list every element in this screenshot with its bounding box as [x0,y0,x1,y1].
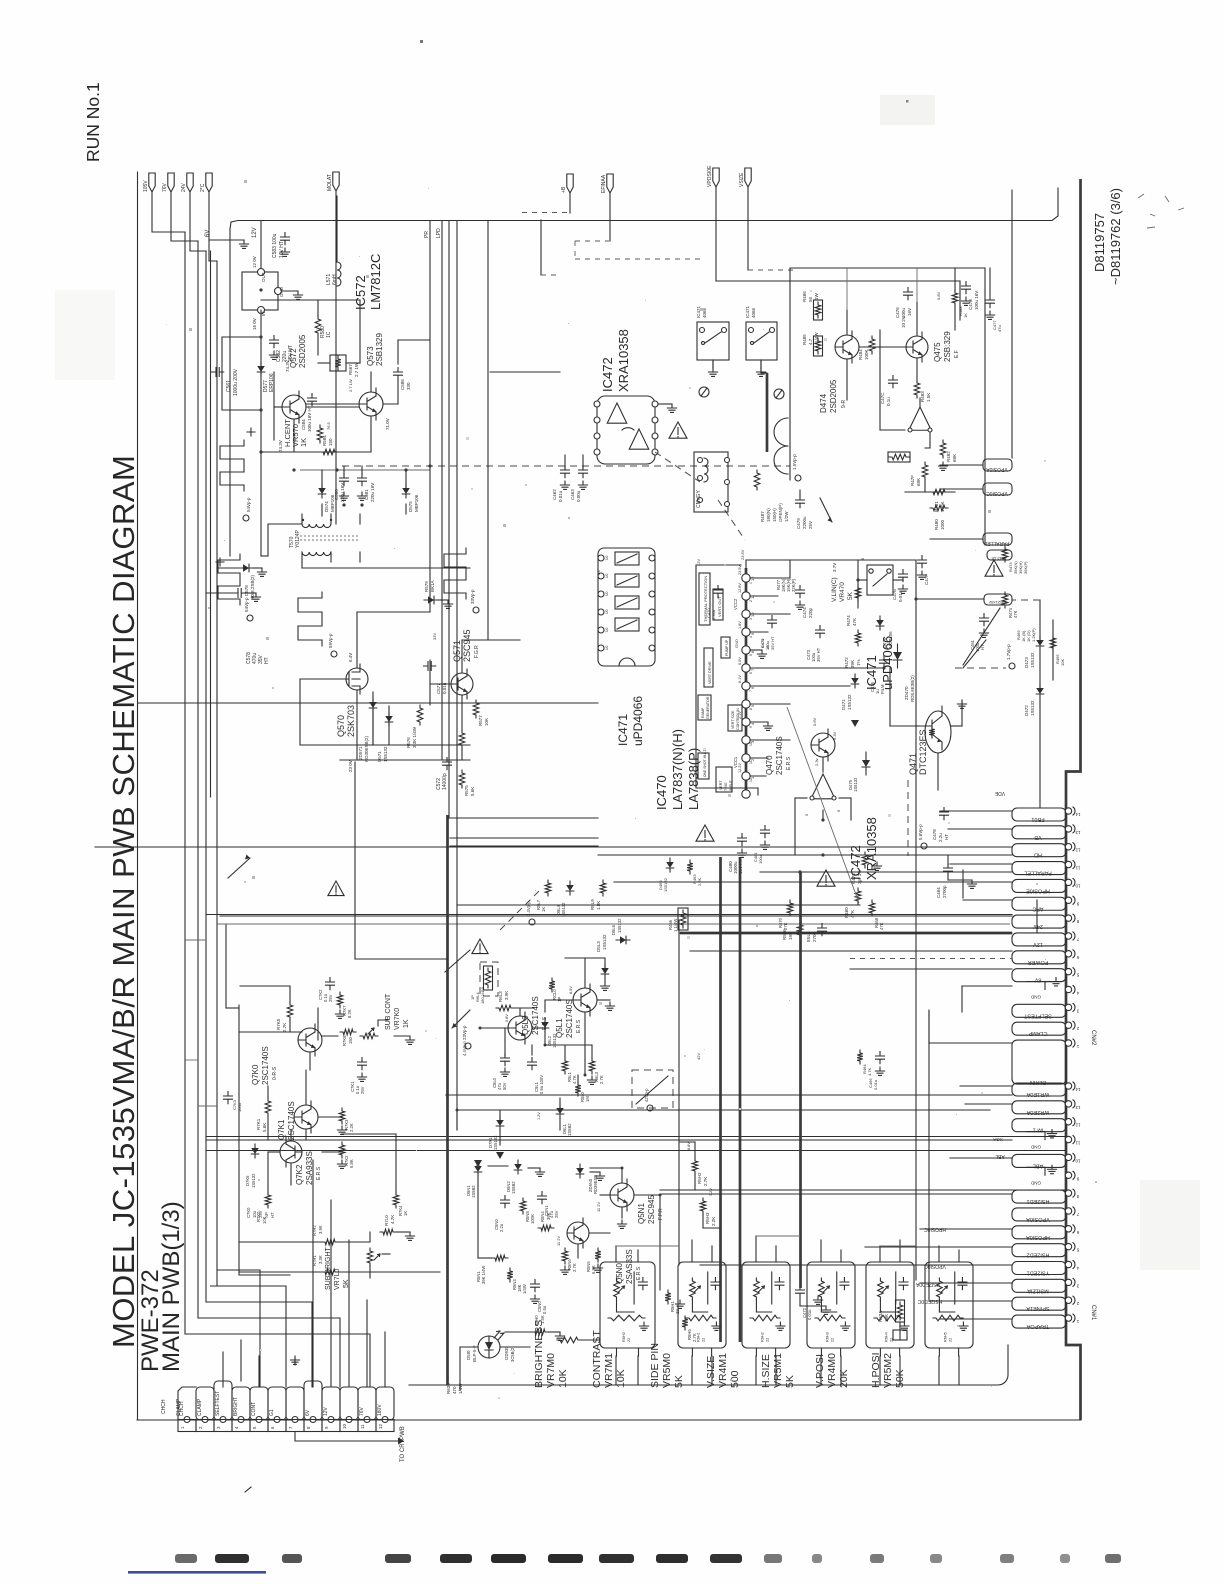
svg-text:R7L0: R7L0 [384,1215,389,1226]
label Q7K0 2SC1740S [251,1046,278,1085]
wire into connector y951 [690,950,1012,952]
svg-text:R5H2: R5H2 [697,1172,702,1184]
wire heavy x720 [719,857,722,1342]
connector tab pin 12 180V [376,1387,394,1420]
wire into connector y811 [940,810,1012,812]
wire pin +B drop [569,193,571,213]
diode ZD571 [358,698,377,762]
svg-text:D473: D473 [1024,657,1029,668]
wire into connector y864 [950,863,1012,865]
svg-text:10K: 10K [1060,659,1065,666]
connector CN1 box ABL [1012,1154,1066,1168]
svg-text:4: 4 [749,636,753,638]
connector CN1 pin circle 7 [1065,1207,1079,1217]
resistor R486 boxed [802,291,823,320]
connector CN2 box POWER [1012,951,1066,965]
svg-text:35V HT: 35V HT [816,647,821,662]
label Q475 2SB1329 [933,331,960,362]
wire heavy right vertical [1066,179,1081,1420]
label 3.7V [832,563,837,572]
connector CN1 pin circle 14 [1065,1082,1080,1092]
svg-text:MSI1ZIA: MSI1ZIA [1027,1287,1049,1293]
svg-text:14: 14 [1075,1087,1081,1092]
resistor R575 [459,770,475,796]
wire into connector y1301 [930,1300,1012,1302]
boxed resistor R47G [888,452,910,462]
svg-text:1S5132: 1S5132 [1030,652,1035,668]
svg-text:C478: C478 [932,829,937,840]
svg-text:XGA: XGA [993,1137,1003,1142]
resistor R5N8 [520,1198,535,1224]
label Q7K2 2SA933S [295,1151,322,1185]
resistor R5N5 [586,1248,603,1274]
label 0.8V marks [505,986,573,1120]
resistor R47F [910,462,928,486]
svg-text:V.LIN(C): V.LIN(C) [831,577,838,602]
svg-text:2SC1740S: 2SC1740S [261,1046,270,1085]
svg-text:TRAPOA: TRAPOA [1026,1323,1049,1329]
wire y958 dash [850,958,1012,960]
svg-text:R480: R480 [934,519,939,530]
wire pin 2*C drop [209,192,217,261]
diode D470 [893,644,915,702]
svg-text:BRIGHTNESS: BRIGHTNESS [533,1320,545,1388]
deflection coil arcs [774,418,801,481]
stray dot mid [906,100,909,103]
svg-text:22: 22 [627,1338,631,1342]
svg-text:10: 10 [749,742,753,746]
svg-text:D574: D574 [324,501,329,512]
svg-text:5.6K: 5.6K [470,787,475,796]
svg-text:0.00u: 0.00u [576,490,581,502]
svg-text:R487: R487 [760,511,765,522]
svg-text:16 0V: 16 0V [252,318,257,330]
diode D579 [424,580,453,608]
label V.LIN(C) VR470 5K [831,577,854,602]
wire rails y838 846 [450,838,598,846]
resistor R460 [844,888,861,918]
boxed resistor R6L4 [470,962,498,1004]
svg-text:24V: 24V [181,182,187,192]
svg-text:TRIG: TRIG [724,782,728,791]
block CNVGY [694,452,730,512]
wire q474 net [847,302,917,400]
svg-text:39K 1/4W: 39K 1/4W [481,1266,486,1284]
connector pin VPOSI0E [707,165,719,187]
svg-text:1S5132: 1S5132 [1030,700,1035,716]
svg-text:5K: 5K [784,1375,796,1388]
svg-text:R6H1: R6H1 [697,1332,701,1342]
svg-text:R7K1: R7K1 [256,1118,261,1130]
svg-text:R579: R579 [424,581,429,592]
svg-text:HPOSI0A: HPOSI0A [1026,1234,1050,1240]
svg-text:100u 16V HT: 100u 16V HT [307,405,312,432]
wire bus staircase 1 [185,1334,370,1387]
connector CN1 box WR1E0A [1012,1083,1066,1097]
svg-text:1S5132: 1S5132 [552,1033,557,1048]
connector CN1 box SPINE1A [1012,1297,1066,1311]
wire rail y855 [598,854,1012,856]
block RAMP GENERATOR [698,695,711,720]
connector CN2 box 24V [1012,915,1066,929]
svg-text:VR470: VR470 [839,582,846,602]
svg-text:1 1/4W: 1 1/4W [673,919,678,932]
svg-text:0.33u: 0.33u [711,610,716,620]
svg-text:VR5M1: VR5M1 [772,1353,784,1388]
connector CN1 pin circle 8 [1065,1189,1079,1199]
svg-text:6.8K: 6.8K [349,1159,354,1168]
doc number ~D8119762 (3/6) [1108,188,1123,285]
capacitor C476 [895,288,913,319]
svg-text:6.8K: 6.8K [591,1265,596,1274]
label Q570 2SK703 [336,705,356,737]
svg-text:1C: 1C [326,331,332,338]
wire into connector y847 [95,846,1012,848]
svg-text:D5I0: D5I0 [466,1350,471,1360]
wire into connector y1104 [965,1103,1012,1105]
diode D473 [1024,636,1044,668]
label G1 [269,1409,275,1416]
wire into connector y900 [963,899,1012,901]
transistor Q474 [835,331,859,363]
svg-text:9: 9 [749,726,753,728]
svg-text:D8119757: D8119757 [1092,213,1107,272]
svg-text:D5L6: D5L6 [611,924,616,935]
svg-text:IC470: IC470 [654,775,669,810]
svg-text:VPOSI0A: VPOSI0A [986,466,1008,472]
svg-text:D474: D474 [819,393,828,413]
wire opamp out [880,330,920,430]
wire right-top stubs [847,268,990,330]
wire r580 link [261,300,330,363]
wire pin VSIZE drop [748,187,795,270]
warning triangle mid-right [985,560,1003,576]
diode D578 row [217,564,267,600]
svg-text:PR: PR [424,231,430,238]
connector CN2 box FB01 [1012,808,1066,822]
svg-text:CNVGY: CNVGY [696,490,702,508]
wire pin col top [746,560,790,568]
resistor R471 [851,852,882,884]
svg-text:2700p: 2700p [942,885,947,898]
svg-text:Q7K2: Q7K2 [295,1164,304,1185]
svg-text:MBP106: MBP106 [414,494,419,512]
tab small A012 [987,550,1012,561]
subtitle PWE-372 [137,1269,164,1372]
svg-text:13: 13 [1075,830,1081,835]
svg-text:1%: 1% [856,659,861,666]
svg-text:180(N): 180(N) [766,508,771,522]
capacitor C578 row [206,589,270,665]
label CHCH CLAMP outer [161,1398,182,1416]
resistor R7K0 [256,1192,271,1224]
svg-text:CHCH: CHCH [161,1399,167,1414]
potentiometer box 4 [807,1262,855,1356]
svg-text:HSI2ED0C: HSI2ED0C [917,1298,942,1304]
svg-text:2SC1740S: 2SC1740S [775,736,784,775]
svg-text:2.7 1W: 2.7 1W [354,362,359,377]
wire top rail [230,188,1058,229]
label V.SIZE VR4M1 [705,1353,741,1388]
svg-text:E.R.S: E.R.S [636,1266,642,1280]
svg-text:R5H3: R5H3 [705,1212,710,1224]
svg-text:GND: GND [1030,995,1041,1000]
capacitor C479 [796,490,805,508]
wire inner box left x488 [487,221,489,641]
svg-text:71.0V: 71.0V [385,418,390,430]
svg-text:68K: 68K [952,454,957,462]
svg-text:VCC2: VCC2 [733,598,738,610]
svg-text:3: 3 [749,618,753,620]
waveform label arrow [228,855,250,879]
connector pin 105V [143,173,155,192]
svg-text:V.SIZE: V.SIZE [705,1356,717,1388]
svg-text:LM7812C: LM7812C [368,254,383,310]
wire IC572 gnd stub [282,291,303,299]
capacitor C561 block [212,337,262,410]
svg-text:2.7K: 2.7K [572,1263,577,1272]
svg-text:D575: D575 [408,501,413,512]
wire hline y1095 [448,1094,1012,1096]
connector CN1 pin 9 GND stub [1027,1165,1057,1185]
svg-text:25V: 25V [360,1086,365,1094]
svg-text:1000u 200V: 1000u 200V [233,368,239,396]
connector tab pin 3 SELFTEST [214,1381,232,1420]
diode D476 [876,616,893,648]
svg-text:R576: R576 [406,737,411,748]
wire row y760 [340,745,470,760]
svg-text:0.1u: 0.1u [886,397,891,406]
svg-text:1K: 1K [766,645,770,650]
svg-text:39K: 39K [546,1212,551,1220]
svg-text:6.4V: 6.4V [348,653,353,662]
label SELFTEST [215,1391,221,1416]
svg-text:FILM: FILM [880,684,885,694]
svg-text:1000: 1000 [940,519,945,530]
scanner noise strip [175,1554,1121,1563]
svg-text:C47E: C47E [892,589,897,600]
svg-text:27K: 27K [783,922,788,930]
svg-text:G1: G1 [269,1409,275,1416]
label IC471 uPD4066 right [864,636,895,690]
svg-text:R7K5: R7K5 [276,1018,281,1030]
resistor R5L0 [575,1082,590,1102]
diode D5N2 [506,1160,545,1194]
wire bus 4 [210,251,212,797]
svg-text:CN#1: CN#1 [1090,1305,1096,1321]
svg-text:1S5132: 1S5132 [251,1173,256,1188]
svg-text:6V: 6V [305,1409,311,1416]
svg-text:PARALLEL: PARALLEL [1024,870,1051,876]
svg-text:R486: R486 [802,291,807,302]
capacitor C586 [394,368,412,391]
svg-text:VERT DRIVE: VERT DRIVE [708,661,712,684]
svg-text:Q7K1: Q7K1 [277,1119,286,1140]
svg-text:1K: 1K [403,1019,410,1028]
diode D471b [841,674,859,727]
wire y1043 blxin [929,1012,1012,1043]
svg-text:RUN No.1: RUN No.1 [83,82,103,162]
svg-text:22: 22 [766,1338,770,1342]
connector CN2 pin circle 14 [1065,807,1080,817]
wire hline y1110 [457,1109,990,1111]
transistor Q7K2 [280,1137,302,1167]
wire inner vertical x442 [441,221,443,761]
wire bus staircase 3 [206,1302,312,1387]
wire IC572 down rail [260,310,262,556]
label CLAMP [197,1398,203,1416]
switch array box [598,548,655,666]
svg-text:12.2V: 12.2V [738,763,742,773]
wire sw gnd a [708,360,717,376]
transistor Q571 [451,669,473,699]
pot VR7L0 [367,1232,390,1278]
label CONTRAST VR7M1 [591,1330,627,1388]
svg-text:1W: 1W [814,292,819,300]
wire q471 links [890,668,967,790]
potentiometer box 1 [600,1262,655,1356]
block VERT SIZE CONTROL IN [728,705,742,731]
ic LA7837 pin numbers [750,576,755,779]
svg-text:VSIZE: VSIZE [739,172,745,187]
svg-text:D471: D471 [841,699,846,710]
wire heavy y933 [680,932,1012,935]
sawtooth wave right [955,608,1015,669]
wire U shape x355 [355,762,448,959]
connector tab pin 4 BRIGHT [232,1387,250,1420]
connector pin +B [561,174,573,193]
tab VPOSI0A [940,459,1012,472]
node 12V label [252,227,258,238]
svg-text:ONE SHOT MULTI: ONE SHOT MULTI [703,748,707,777]
label 0.8V rt [936,291,941,300]
transistor Q570 2SK703 [341,664,368,694]
resistor R580 [315,316,332,338]
svg-text:VSI2ED0A: VSI2ED0A [915,1281,940,1287]
connector CN2 box PARALLEL [1012,862,1066,876]
wire into connector y1158 [950,1157,1012,1159]
svg-text:47K: 47K [879,922,884,930]
capacitor C5L0 [492,1040,510,1090]
svg-text:47K: 47K [1013,610,1018,618]
svg-text:CONTRAST: CONTRAST [591,1330,603,1388]
svg-text:25V: 25V [554,1210,559,1218]
svg-text:22: 22 [702,1338,706,1342]
capacitor C464 [936,855,977,898]
svg-text:HPOSI0E: HPOSI0E [1026,887,1050,893]
svg-text:12V: 12V [323,1406,329,1416]
svg-text:Q5N1: Q5N1 [637,1203,646,1224]
svg-text:C463: C463 [570,489,575,500]
connector tab pin 6 G1 [268,1387,286,1420]
connector CN2 pin circle 10 [1065,878,1080,888]
wire bus hbars [185,940,217,1106]
wire rail D [206,1150,1066,1152]
svg-text:HSI2ED2: HSI2ED2 [1027,1252,1050,1258]
connector CN2 box HD [1012,844,1066,858]
capacitor C577 [424,662,448,695]
svg-text:23.5V: 23.5V [740,549,745,560]
svg-text:RD5.6E3B(2): RD5.6E3B(2) [910,675,915,702]
wire vlin net [858,560,903,608]
svg-text:CLAMP: CLAMP [176,1398,182,1416]
svg-text:14000p: 14000p [442,773,448,790]
svg-text:470: 470 [452,1386,457,1394]
svg-text:BRIGHT: BRIGHT [233,1397,239,1416]
diode ZD5N0 [576,1164,604,1194]
svg-text:2SC945: 2SC945 [462,629,472,662]
wire into connector y933 [680,932,1012,934]
svg-text:SUB CONT: SUB CONT [385,993,392,1030]
transistor Q5L1 [573,984,597,1016]
potentiometer box 2 [678,1262,726,1356]
connector CN1 box MSI1ZIA [1012,1279,1066,1293]
label RCL0 1P [549,978,562,1002]
svg-text:1/0: 1/0 [605,555,609,560]
wire q572 emitter net [294,407,371,452]
resistor R5N3 [507,1268,527,1294]
svg-text:Q7K0: Q7K0 [251,1064,260,1085]
wire x226 branch [226,925,239,1008]
svg-text:C462: C462 [552,489,557,500]
resistor R483 [914,380,931,402]
wire q7k chain [268,1052,310,1192]
connector pin MOLAT [327,172,339,191]
block PUMP UP [721,637,730,658]
resistor R474b [846,585,861,626]
resistor R5N6 [560,1248,577,1274]
wire tab risers [223,1160,385,1387]
svg-text:12: 12 [1075,848,1081,853]
wire bus 1 [184,232,186,1334]
svg-text:12: 12 [749,778,753,782]
svg-text:10: 10 [1075,883,1081,888]
connector CN1 pin circle 11 [1065,1136,1080,1146]
wire q571 collector [462,640,520,673]
wire opamp gnd [658,404,677,412]
potentiometer box 6 [925,1262,973,1356]
label 16.0V [252,318,257,330]
capacitor C466 [868,1052,885,1091]
scan speckle [166,180,1097,1399]
connector CN2 box CLAMP [1012,1022,1066,1036]
label Q7K1 2SC1740S [277,1101,296,1140]
svg-text:100u 16V: 100u 16V [974,291,979,310]
svg-text:SIDE PIN: SIDE PIN [649,1343,661,1388]
wire y470 rail [300,469,430,471]
wire into connector y1283 [920,1282,1012,1284]
wire right inner vertical [1011,190,1013,458]
wire heavy x447 [446,815,449,1385]
connector CN2 box HPOSI0E [1012,879,1066,893]
wire into connector y1140 [206,1139,1012,1141]
switch array pins right [649,555,655,651]
svg-text:8.5V: 8.5V [569,986,573,994]
resistor R487 [754,470,789,522]
svg-text:HT: HT [270,1212,275,1218]
wire heavy x800 [799,872,802,1288]
capacitor C470 [706,586,723,621]
wire into connector y1086 [960,1085,1012,1087]
svg-text:16V: 16V [907,308,912,316]
svg-text:13: 13 [1075,1105,1081,1110]
svg-text:10: 10 [342,1423,347,1429]
svg-text:C479: C479 [796,518,801,529]
wire vposi drop lines [713,360,767,452]
svg-text:1.2V: 1.2V [537,1112,541,1120]
wire into connector y916 [220,915,1012,917]
dashed waveform box [632,1070,673,1111]
